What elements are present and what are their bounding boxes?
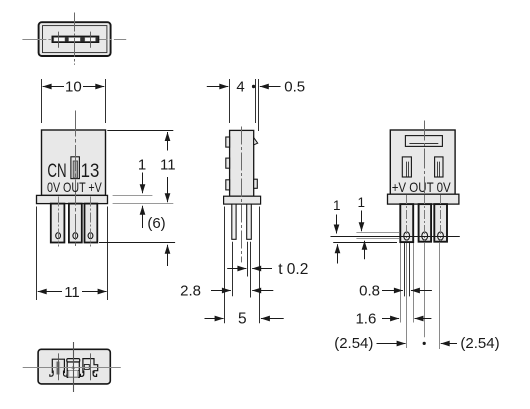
dim 2.8 left arrow — [211, 290, 231, 292]
side left tab 2 — [226, 158, 230, 168]
pin1 centerline ext — [406, 243, 408, 348]
pin1 left edge ext line — [400, 243, 402, 323]
front flange — [37, 195, 108, 203]
side body — [230, 130, 254, 196]
dim 1A up arrow — [337, 244, 339, 263]
dim 0.5 ext line — [258, 79, 260, 131]
bottom contact1 centerline — [58, 353, 60, 380]
bottom view outer housing — [38, 349, 110, 384]
side pin t ext line 2 — [250, 242, 252, 298]
bottom horizontal centerline — [23, 367, 121, 369]
dim 5 right arrow — [261, 318, 284, 320]
dim 11 bottom ext line right — [107, 207, 109, 301]
rear right window — [435, 157, 443, 177]
front center slot outer — [71, 157, 80, 179]
pin1 right edge ext line — [413, 243, 415, 323]
flange bottom extension line gray — [113, 203, 174, 205]
rear pin2 hole — [422, 232, 428, 240]
rear pin2 centerline — [424, 195, 426, 241]
side vertical centerline — [241, 127, 243, 263]
flange top extension line gray — [113, 195, 153, 197]
top view slot1 centerline — [58, 32, 60, 48]
svg-text:0V OUT +V: 0V OUT +V — [47, 179, 102, 195]
svg-text:0.8: 0.8 — [359, 283, 380, 300]
front pin1 hole — [56, 233, 61, 239]
dim 0.8 left arrow — [382, 290, 403, 292]
bottom contact 1 (staple) — [50, 359, 67, 376]
front housing body — [42, 130, 106, 195]
rear pin 1 — [400, 204, 413, 242]
front pin2 hole — [73, 233, 78, 239]
dim t0.2 right arrow — [252, 268, 272, 270]
top view slot band — [52, 36, 98, 42]
svg-text:(6): (6) — [147, 215, 165, 232]
dim 1A down arrow — [336, 215, 338, 234]
side flange — [224, 196, 261, 204]
dim 11 bottom ext line left — [36, 207, 38, 301]
svg-text:(2.54): (2.54) — [460, 335, 499, 352]
svg-text:4: 4 — [236, 78, 244, 95]
top view horizontal centerline — [22, 39, 126, 41]
dim 1.6 right arrow — [415, 318, 432, 320]
dim 1B up arrow — [364, 241, 366, 260]
side flange left ext line — [224, 207, 226, 324]
side pin t ext line 1 — [247, 242, 249, 277]
rear left window inner lines — [406, 162, 408, 177]
front main vertical centerline — [75, 111, 77, 248]
pin tip reference line — [333, 242, 397, 244]
svg-text:1: 1 — [138, 156, 146, 173]
svg-text:11: 11 — [64, 284, 80, 301]
dim 1 up arrow — [142, 206, 144, 228]
top view slot3 centerline — [90, 32, 92, 48]
dim 10 extension line right — [105, 79, 107, 123]
svg-text:t 0.2: t 0.2 — [278, 261, 308, 278]
front pin3 centerline — [90, 197, 92, 247]
top view vertical centerline — [74, 13, 76, 65]
top view inner wall rectangle — [43, 26, 107, 53]
dim 0.5 arrow — [260, 86, 281, 88]
side left tab 3 — [226, 180, 230, 190]
bottom contact 2 (center) — [67, 359, 80, 378]
hole bottom tangent line gray — [356, 238, 399, 240]
dim 4 dot terminator — [252, 85, 255, 88]
rear pin3 hole — [438, 232, 444, 240]
dim 10 extension line left — [41, 79, 43, 123]
svg-text:10: 10 — [65, 78, 82, 95]
dim 1B down arrow — [361, 211, 363, 232]
dim 4 arrow — [207, 86, 229, 88]
pin2 center dot — [423, 342, 426, 345]
pin2 centerline ext — [424, 243, 426, 337]
top view slot window 2 — [69, 38, 81, 42]
side pin B — [247, 204, 252, 239]
bottom contact3 centerline — [90, 353, 92, 380]
front pin1 centerline — [58, 197, 60, 247]
front pin 3 — [85, 204, 98, 243]
dim 11 bottom arrow right — [82, 291, 107, 293]
top view slot window 3 — [85, 38, 96, 42]
dim t0.2 left arrow — [227, 268, 246, 270]
side left tab 1 — [226, 137, 230, 147]
hole center line black — [331, 236, 460, 238]
front top edge extension line (right) — [107, 130, 173, 132]
side flange right ext line — [259, 207, 261, 324]
bottom contact 3 (with side lug) — [80, 359, 97, 377]
bottom vertical centerline — [73, 342, 75, 392]
front pin3 hole — [88, 233, 93, 239]
rear housing body — [390, 130, 455, 194]
dim (2.54) left arrow — [377, 343, 406, 345]
rear left window — [402, 157, 411, 177]
hole top tangent line gray — [356, 232, 399, 234]
svg-text:1: 1 — [333, 198, 341, 213]
dim 5 left arrow — [205, 318, 224, 320]
svg-text:1: 1 — [357, 195, 365, 210]
pin1 hole left ext line — [404, 243, 406, 296]
svg-text:1.6: 1.6 — [355, 310, 376, 327]
front pin 2 — [69, 204, 82, 243]
rear pin1 hole — [404, 232, 410, 240]
dim 0.8 right arrow — [411, 290, 432, 292]
svg-text:5: 5 — [238, 311, 247, 328]
dim 11 bottom arrow left — [38, 291, 62, 293]
pin bottom extension line — [99, 242, 175, 244]
dim 10 arrow right — [83, 86, 104, 88]
dim (2.54) right arrow — [441, 343, 457, 345]
rear top window inner line — [409, 143, 438, 145]
dim 11 upper arrow — [167, 132, 169, 151]
dim 4 ext line left — [229, 79, 231, 123]
rear flange — [388, 194, 459, 204]
top view slot window 1 — [54, 38, 65, 42]
rear right window inner lines — [437, 162, 439, 177]
side right latch hook — [254, 138, 258, 145]
svg-text:+V OUT 0V: +V OUT 0V — [392, 179, 452, 195]
front pin 1 — [51, 204, 65, 243]
side pin A — [232, 204, 236, 239]
front center slot inner — [73, 161, 77, 178]
rear pin3 centerline — [440, 195, 442, 241]
rear top window — [405, 136, 442, 147]
dim 1 down arrow — [142, 173, 144, 194]
pin1 hole right ext line — [409, 243, 411, 296]
dim 4 ext line right — [255, 79, 257, 123]
rear main centerline — [424, 121, 426, 194]
rear pin 3 — [434, 204, 447, 242]
svg-text:0.5: 0.5 — [284, 78, 305, 95]
top view outer housing outline — [39, 22, 111, 56]
dim 1.6 left arrow — [382, 318, 399, 320]
svg-text:(2.54): (2.54) — [334, 335, 373, 352]
svg-text:2.8: 2.8 — [180, 282, 201, 299]
side right tab — [254, 179, 258, 188]
rear pin 2 — [419, 204, 432, 242]
dim 2.8 right arrow — [252, 290, 273, 292]
svg-text:11: 11 — [160, 156, 176, 173]
dim (6) up arrow — [167, 245, 169, 266]
dim 10 arrow left — [43, 86, 64, 88]
pin3 centerline ext — [439, 243, 441, 349]
dim 11 lower arrow — [167, 177, 169, 202]
side pin left-edge ext line — [232, 242, 234, 297]
rear pin1 centerline — [406, 195, 408, 241]
